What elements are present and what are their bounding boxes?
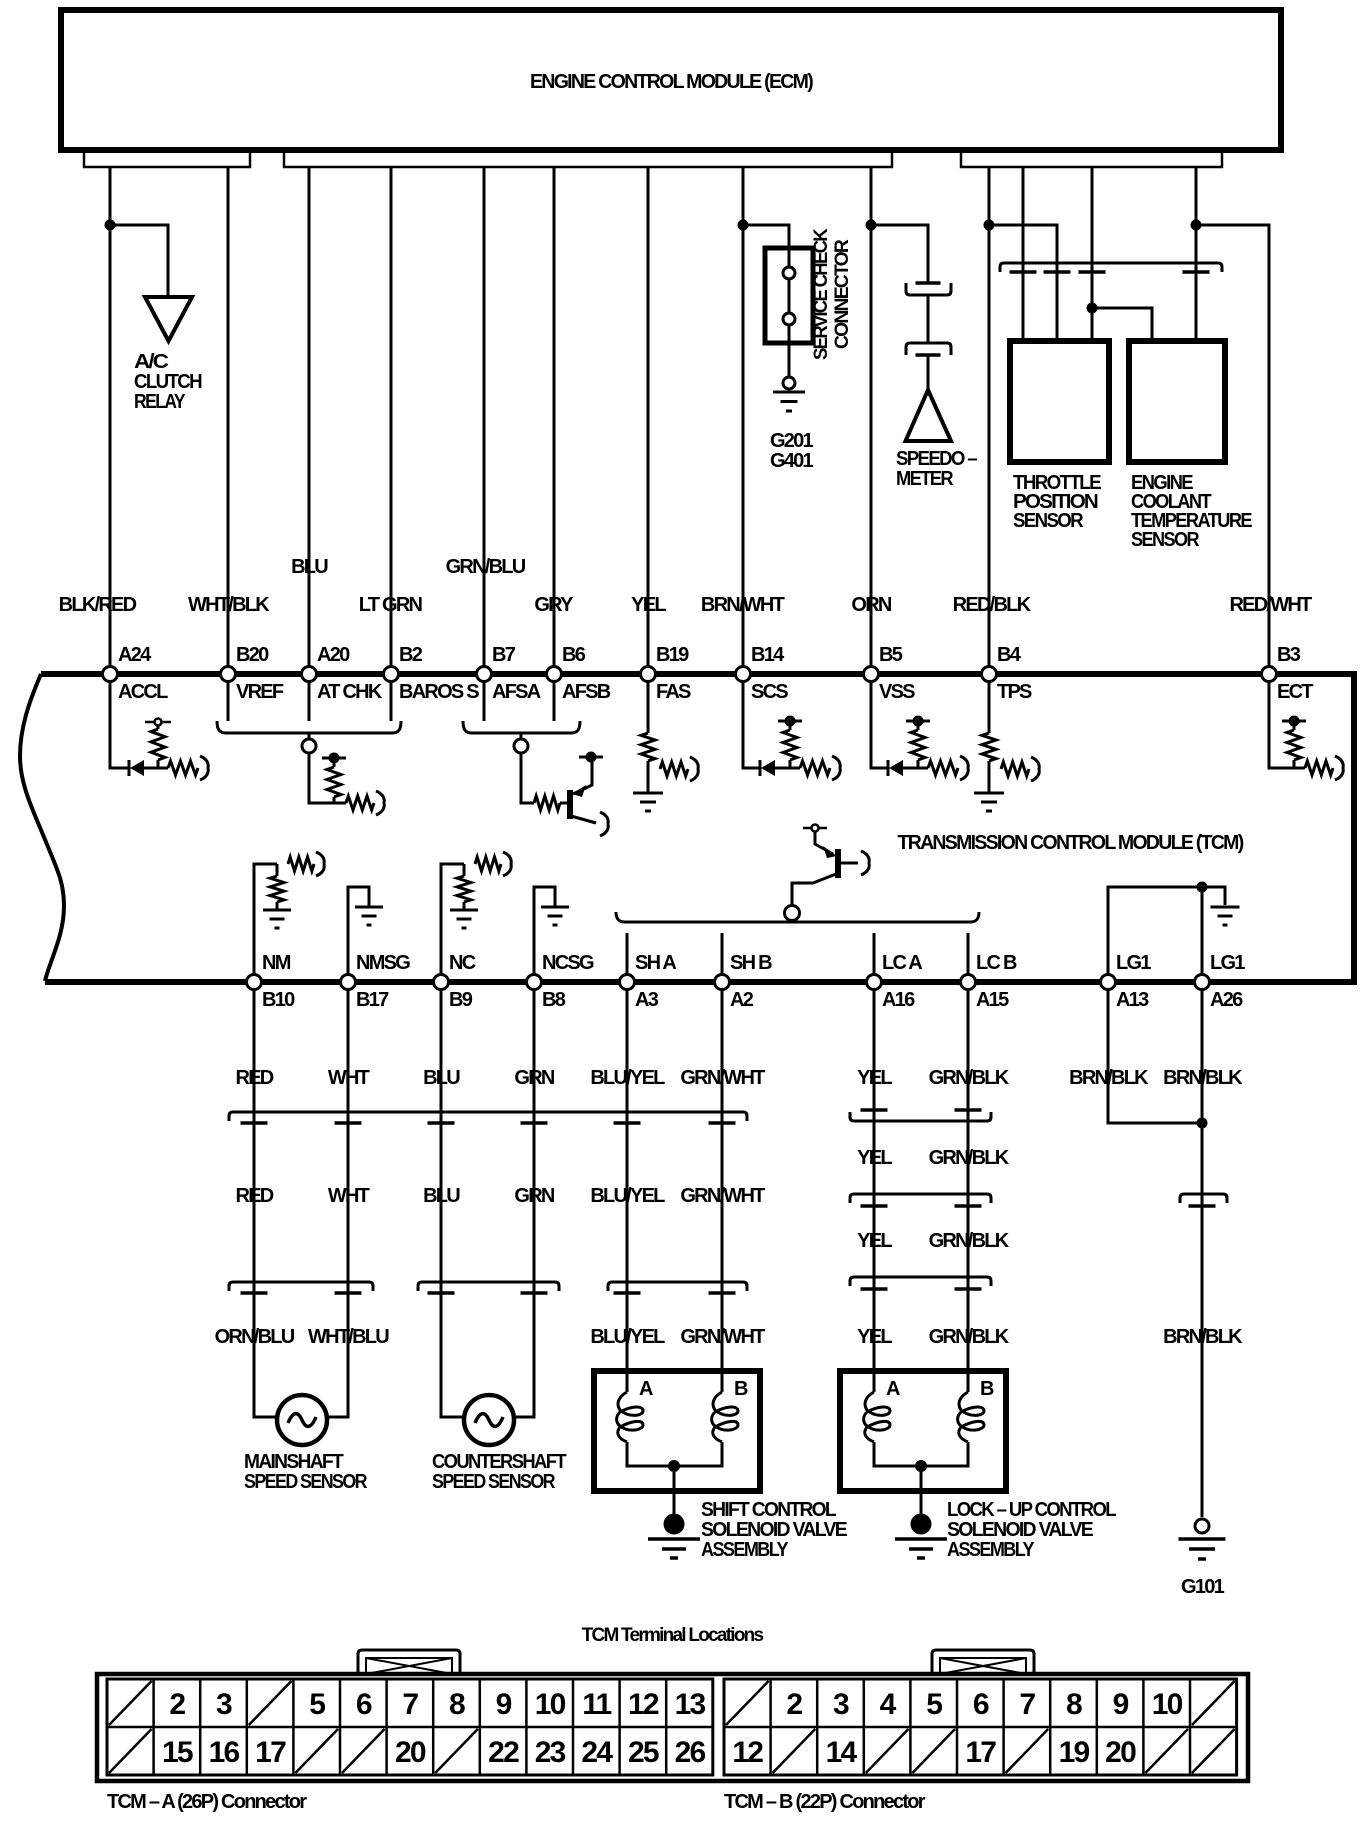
junction BRN/BLK bbox=[1197, 1118, 1208, 1129]
svg-text:B2: B2 bbox=[399, 644, 423, 666]
ECT internal circuit bbox=[1269, 681, 1343, 780]
label YEL row2 bbox=[857, 1147, 892, 1169]
svg-text:LC B: LC B bbox=[976, 952, 1017, 974]
ground G201/G401 bbox=[770, 377, 814, 472]
wire ORN B5 bbox=[870, 167, 873, 667]
svg-text:WHT: WHT bbox=[328, 1067, 370, 1089]
pin B3 ECT bbox=[1262, 644, 1314, 703]
label BLK/RED bbox=[59, 594, 137, 616]
wire A3 BLU/YEL bbox=[626, 989, 629, 1371]
wire RED/WHT B3 bbox=[1196, 225, 1269, 667]
wire WHT/BLK B20 bbox=[227, 167, 230, 667]
svg-text:SPEEDO –: SPEEDO – bbox=[896, 448, 978, 470]
label WHT/BLU row4 bbox=[308, 1326, 389, 1348]
pin A26 LG1 bbox=[1195, 952, 1246, 1011]
junction sensor mid bbox=[1087, 303, 1098, 314]
wire A15 GRN/BLK bbox=[967, 989, 970, 1371]
pin B6 AFSB bbox=[547, 644, 611, 703]
pin B8 NCSG bbox=[527, 952, 594, 1011]
wire GRY B6 bbox=[553, 167, 556, 667]
svg-text:YEL: YEL bbox=[857, 1147, 892, 1169]
wire B17 WHT bbox=[323, 989, 348, 1417]
svg-text:B20: B20 bbox=[236, 644, 269, 666]
wire A16 YEL bbox=[873, 989, 876, 1371]
svg-text:GRN/BLK: GRN/BLK bbox=[929, 1230, 1010, 1252]
A/C clutch relay triangle bbox=[134, 297, 202, 413]
label GRN/BLK row3 bbox=[929, 1230, 1010, 1252]
svg-text:VSS: VSS bbox=[879, 681, 915, 703]
svg-text:9: 9 bbox=[496, 1688, 512, 1721]
svg-text:CLUTCH: CLUTCH bbox=[134, 371, 202, 393]
wire to service check connector bbox=[743, 225, 789, 248]
NCSG internal ground bbox=[534, 887, 569, 975]
pin B4 TPS bbox=[982, 644, 1033, 703]
svg-text:10: 10 bbox=[535, 1688, 566, 1721]
svg-text:3: 3 bbox=[833, 1688, 849, 1721]
TCM-A 26P connector table bbox=[107, 1679, 713, 1813]
svg-text:LC A: LC A bbox=[882, 952, 922, 974]
svg-text:TCM Terminal Locations: TCM Terminal Locations bbox=[582, 1625, 764, 1646]
svg-text:4: 4 bbox=[880, 1688, 897, 1721]
label ORN bbox=[851, 594, 892, 616]
svg-text:RED: RED bbox=[236, 1185, 274, 1207]
pin B14 SCS bbox=[736, 644, 789, 703]
wire ECM to TPS sensor pin1 bbox=[1022, 167, 1025, 341]
svg-text:YEL: YEL bbox=[857, 1326, 892, 1348]
VREF group internal resistors bbox=[309, 753, 384, 816]
svg-text:B17: B17 bbox=[356, 989, 389, 1011]
svg-text:SOLENOID VALVE: SOLENOID VALVE bbox=[701, 1519, 847, 1541]
svg-text:6: 6 bbox=[973, 1688, 989, 1721]
NMSG internal ground bbox=[348, 887, 383, 975]
svg-text:6: 6 bbox=[356, 1688, 372, 1721]
svg-text:NM: NM bbox=[262, 952, 291, 974]
svg-text:24: 24 bbox=[581, 1736, 613, 1769]
svg-text:SENSOR: SENSOR bbox=[1013, 510, 1084, 532]
svg-text:BLU/YEL: BLU/YEL bbox=[590, 1067, 665, 1089]
svg-text:12: 12 bbox=[628, 1688, 659, 1721]
svg-text:BLU: BLU bbox=[291, 556, 328, 578]
svg-text:GRN/BLK: GRN/BLK bbox=[929, 1067, 1010, 1089]
svg-text:17: 17 bbox=[255, 1736, 286, 1769]
svg-text:B9: B9 bbox=[449, 989, 473, 1011]
ECM module box bbox=[61, 10, 1281, 150]
TPS internal circuit bbox=[974, 681, 1039, 811]
pin A3 SH A bbox=[620, 952, 677, 1011]
label GRN row1 bbox=[514, 1067, 555, 1089]
ground G101 bbox=[1179, 1519, 1226, 1598]
svg-text:TRANSMISSION CONTROL MODULE (T: TRANSMISSION CONTROL MODULE (TCM) bbox=[898, 832, 1244, 854]
svg-text:SOLENOID VALVE: SOLENOID VALVE bbox=[947, 1519, 1093, 1541]
svg-text:SCS: SCS bbox=[751, 681, 788, 703]
svg-text:B14: B14 bbox=[751, 644, 785, 666]
svg-text:GRN/WHT: GRN/WHT bbox=[680, 1326, 765, 1348]
svg-text:G201: G201 bbox=[770, 430, 814, 452]
svg-text:GRN/WHT: GRN/WHT bbox=[680, 1185, 765, 1207]
label GRN/BLK row1 bbox=[929, 1067, 1010, 1089]
bracket SH/LC group bbox=[616, 912, 979, 922]
bracket VREF group bbox=[217, 721, 401, 753]
svg-text:AFSB: AFSB bbox=[562, 681, 611, 703]
svg-text:8: 8 bbox=[1066, 1688, 1082, 1721]
TCM terminal locations title bbox=[582, 1625, 764, 1646]
svg-text:26: 26 bbox=[675, 1736, 706, 1769]
svg-text:B6: B6 bbox=[562, 644, 586, 666]
svg-text:SH A: SH A bbox=[635, 952, 676, 974]
wire LT GRN B2 bbox=[390, 167, 393, 667]
svg-text:10: 10 bbox=[1152, 1688, 1183, 1721]
label GRN/BLK row2 bbox=[929, 1147, 1010, 1169]
svg-text:SERVICE CHECK: SERVICE CHECK bbox=[811, 228, 832, 360]
svg-text:5: 5 bbox=[926, 1688, 942, 1721]
svg-text:TPS: TPS bbox=[997, 681, 1032, 703]
FAS internal circuit bbox=[633, 681, 698, 811]
wire GRN/BLU B7 bbox=[483, 167, 486, 667]
svg-text:11: 11 bbox=[582, 1688, 611, 1721]
label GRN/WHT row2 bbox=[680, 1185, 765, 1207]
housing tab A bbox=[358, 1650, 460, 1676]
label BRN/BLK row1 bbox=[1069, 1067, 1149, 1089]
wire A2 GRN/WHT bbox=[721, 989, 724, 1371]
svg-text:9: 9 bbox=[1113, 1688, 1129, 1721]
label GRN/BLU bbox=[446, 556, 526, 578]
inline connector LC lower bbox=[850, 1277, 991, 1289]
AFSA group resistor + transistor bbox=[521, 752, 608, 837]
svg-text:15: 15 bbox=[162, 1736, 193, 1769]
svg-text:B10: B10 bbox=[262, 989, 295, 1011]
svg-text:MAINSHAFT: MAINSHAFT bbox=[244, 1451, 343, 1473]
label LT GRN bbox=[359, 594, 423, 616]
wire TPS branch bbox=[989, 225, 1057, 341]
svg-text:20: 20 bbox=[1105, 1736, 1136, 1769]
SCS internal circuit bbox=[743, 681, 840, 780]
label YEL bbox=[631, 594, 666, 616]
pin B9 NC bbox=[434, 952, 476, 1011]
label GRN/WHT row1 bbox=[680, 1067, 765, 1089]
svg-text:16: 16 bbox=[209, 1736, 240, 1769]
label GRN/BLK row4 bbox=[929, 1326, 1010, 1348]
label GRN/WHT row4 bbox=[680, 1326, 765, 1348]
svg-text:B19: B19 bbox=[656, 644, 689, 666]
svg-text:NMSG: NMSG bbox=[356, 952, 410, 974]
svg-text:TCM – B (22P) Connector: TCM – B (22P) Connector bbox=[724, 1791, 926, 1813]
LG1 internal link bbox=[1108, 882, 1240, 976]
NC internal circuit bbox=[441, 852, 511, 975]
svg-text:BRN/BLK: BRN/BLK bbox=[1163, 1067, 1243, 1089]
label BLU/YEL row1 bbox=[590, 1067, 665, 1089]
ECM connector strip 1 bbox=[84, 153, 250, 167]
TCM title bbox=[898, 832, 1244, 854]
svg-text:LG1: LG1 bbox=[1116, 952, 1151, 974]
junction ACCL bbox=[105, 220, 116, 231]
junction TPS bbox=[984, 220, 995, 231]
svg-text:BLU/YEL: BLU/YEL bbox=[590, 1326, 665, 1348]
svg-text:7: 7 bbox=[1019, 1688, 1035, 1721]
pin A24 ACCL bbox=[103, 644, 169, 703]
svg-text:5: 5 bbox=[309, 1688, 325, 1721]
svg-text:BRN/WHT: BRN/WHT bbox=[701, 594, 785, 616]
svg-text:TCM – A (26P) Connector: TCM – A (26P) Connector bbox=[107, 1791, 307, 1813]
svg-text:LG1: LG1 bbox=[1210, 952, 1245, 974]
svg-text:20: 20 bbox=[395, 1736, 426, 1769]
wire A13 BRN/BLK bbox=[1108, 989, 1202, 1123]
housing tab B bbox=[932, 1650, 1034, 1676]
inline connector LC upper bbox=[850, 1110, 991, 1121]
label BRN/BLK row4 bbox=[1163, 1326, 1243, 1348]
svg-text:SPEED SENSOR: SPEED SENSOR bbox=[432, 1471, 556, 1493]
svg-text:VREF: VREF bbox=[236, 681, 284, 703]
junction VSS bbox=[866, 220, 877, 231]
label BLU row1 bbox=[423, 1067, 460, 1089]
pin B20 VREF bbox=[221, 644, 284, 703]
inline connector (speedometer) lower half bbox=[906, 295, 951, 355]
svg-text:SH B: SH B bbox=[730, 952, 772, 974]
svg-text:ECT: ECT bbox=[1277, 681, 1313, 703]
svg-text:ACCL: ACCL bbox=[118, 681, 168, 703]
lock-up control solenoid valve assembly bbox=[840, 1371, 1006, 1558]
label RED row2 bbox=[236, 1185, 274, 1207]
svg-text:GRN/WHT: GRN/WHT bbox=[680, 1067, 765, 1089]
label BRN/BLK row1 bbox=[1163, 1067, 1243, 1089]
svg-text:SPEED SENSOR: SPEED SENSOR bbox=[244, 1471, 368, 1493]
pin A16 LC A bbox=[867, 952, 923, 1011]
label GRY bbox=[534, 594, 574, 616]
svg-text:ORN: ORN bbox=[851, 594, 892, 616]
pin B19 FAS bbox=[641, 644, 692, 703]
VSS internal circuit bbox=[871, 681, 968, 780]
sensor connector bracket bbox=[1000, 263, 1222, 272]
svg-text:BRN/BLK: BRN/BLK bbox=[1163, 1326, 1243, 1348]
wire ECM to ECT sensor pin2 bbox=[1195, 167, 1198, 341]
label RED/BLK bbox=[953, 594, 1032, 616]
label BRN/WHT bbox=[701, 594, 785, 616]
inline connector C1 (6 wires) bbox=[229, 1112, 747, 1123]
TCM module outline bbox=[20, 674, 1354, 982]
svg-text:14: 14 bbox=[826, 1736, 858, 1769]
svg-text:RED/BLK: RED/BLK bbox=[953, 594, 1032, 616]
svg-text:CONNECTOR: CONNECTOR bbox=[832, 239, 853, 349]
svg-text:23: 23 bbox=[535, 1736, 566, 1769]
svg-text:13: 13 bbox=[675, 1688, 706, 1721]
svg-text:ORN/BLU: ORN/BLU bbox=[215, 1326, 295, 1348]
inline connector C2b bbox=[418, 1282, 559, 1293]
svg-text:A3: A3 bbox=[635, 989, 659, 1011]
label BLU/YEL row4 bbox=[590, 1326, 665, 1348]
wire B9 BLU bbox=[441, 989, 466, 1417]
svg-text:B5: B5 bbox=[879, 644, 903, 666]
inline connector C2c bbox=[608, 1282, 747, 1293]
svg-text:B: B bbox=[980, 1378, 994, 1400]
inline connector LC mid bbox=[850, 1194, 991, 1206]
svg-text:BLU: BLU bbox=[423, 1185, 460, 1207]
shift control solenoid valve assembly bbox=[594, 1371, 760, 1558]
throttle position sensor bbox=[1010, 341, 1109, 532]
svg-text:GRN/BLK: GRN/BLK bbox=[929, 1147, 1010, 1169]
wire BLU A20 bbox=[308, 167, 311, 667]
service check connector bbox=[765, 228, 853, 360]
engine coolant temperature sensor bbox=[1129, 341, 1252, 551]
svg-text:RELAY: RELAY bbox=[134, 391, 186, 413]
wire to A/C clutch relay bbox=[110, 225, 168, 297]
svg-text:G101: G101 bbox=[1181, 1576, 1225, 1598]
pin B17 NMSG bbox=[341, 952, 411, 1011]
ECM connector strip 3 bbox=[961, 153, 1222, 167]
wire ECM to sensors mid bbox=[1091, 167, 1094, 341]
pin A13 LG1 bbox=[1101, 952, 1152, 1011]
inline connector BRN/BLK bbox=[1180, 1194, 1227, 1206]
ACCL internal circuit bbox=[110, 681, 208, 780]
svg-text:GRY: GRY bbox=[534, 594, 574, 616]
svg-text:ENGINE CONTROL MODULE (ECM): ENGINE CONTROL MODULE (ECM) bbox=[530, 71, 813, 93]
label ORN/BLU row4 bbox=[215, 1326, 295, 1348]
svg-text:WHT/BLK: WHT/BLK bbox=[188, 594, 270, 616]
svg-text:B: B bbox=[734, 1378, 748, 1400]
wire BRN/WHT B14 bbox=[742, 167, 745, 667]
svg-text:YEL: YEL bbox=[631, 594, 666, 616]
ECM connector strip 2 bbox=[284, 153, 892, 167]
svg-text:GRN: GRN bbox=[514, 1185, 555, 1207]
svg-text:12: 12 bbox=[732, 1736, 763, 1769]
wires SH/LC into bracket bbox=[627, 933, 968, 975]
connector housing bbox=[97, 1674, 1248, 1781]
label WHT row2 bbox=[328, 1185, 370, 1207]
TCM-B 22P connector table bbox=[724, 1679, 1237, 1813]
inline connector C2a bbox=[229, 1282, 373, 1293]
svg-text:WHT/BLU: WHT/BLU bbox=[308, 1326, 389, 1348]
junction ECT branch bbox=[1191, 220, 1202, 231]
svg-text:BLU/YEL: BLU/YEL bbox=[590, 1185, 665, 1207]
svg-text:25: 25 bbox=[628, 1736, 659, 1769]
label BLU/YEL row2 bbox=[590, 1185, 665, 1207]
svg-text:WHT: WHT bbox=[328, 1185, 370, 1207]
svg-text:A/C: A/C bbox=[134, 351, 168, 373]
svg-text:2: 2 bbox=[169, 1688, 185, 1721]
svg-text:LOCK – UP CONTROL: LOCK – UP CONTROL bbox=[947, 1499, 1116, 1521]
label BLU row2 bbox=[423, 1185, 460, 1207]
svg-text:SHIFT CONTROL: SHIFT CONTROL bbox=[701, 1499, 836, 1521]
svg-text:METER: METER bbox=[896, 468, 954, 490]
label WHT/BLK bbox=[188, 594, 270, 616]
svg-text:A16: A16 bbox=[882, 989, 915, 1011]
svg-text:LT GRN: LT GRN bbox=[359, 594, 423, 616]
label RED row1 bbox=[236, 1067, 274, 1089]
svg-text:BAROS S: BAROS S bbox=[399, 681, 479, 703]
SH/LC transistor bbox=[785, 825, 870, 921]
wire RED/BLK B4 bbox=[988, 167, 991, 667]
svg-text:YEL: YEL bbox=[857, 1230, 892, 1252]
wire B8 GRN bbox=[510, 989, 534, 1417]
svg-text:RED: RED bbox=[236, 1067, 274, 1089]
svg-text:BRN/BLK: BRN/BLK bbox=[1069, 1067, 1149, 1089]
svg-text:8: 8 bbox=[449, 1688, 465, 1721]
wire BLK/RED A24 bbox=[109, 167, 112, 667]
label GRN row2 bbox=[514, 1185, 555, 1207]
svg-text:GRN: GRN bbox=[514, 1067, 555, 1089]
svg-text:19: 19 bbox=[1059, 1736, 1090, 1769]
svg-text:2: 2 bbox=[786, 1688, 802, 1721]
inline connector (speedometer) upper half bbox=[906, 283, 951, 295]
svg-text:A2: A2 bbox=[730, 989, 754, 1011]
svg-text:FAS: FAS bbox=[656, 681, 691, 703]
label YEL row4 bbox=[857, 1326, 892, 1348]
svg-text:AFSA: AFSA bbox=[492, 681, 541, 703]
svg-text:GRN/BLK: GRN/BLK bbox=[929, 1326, 1010, 1348]
wire B10 RED bbox=[254, 989, 279, 1417]
label YEL row3 bbox=[857, 1230, 892, 1252]
pin A15 LC B bbox=[961, 952, 1017, 1011]
svg-text:BLK/RED: BLK/RED bbox=[59, 594, 137, 616]
svg-text:G401: G401 bbox=[770, 450, 814, 472]
wire below service connector bbox=[788, 343, 791, 377]
svg-text:GRN/BLU: GRN/BLU bbox=[446, 556, 526, 578]
svg-text:RED/WHT: RED/WHT bbox=[1229, 594, 1312, 616]
svg-text:7: 7 bbox=[402, 1688, 418, 1721]
AFSA/AFSB wires into bracket bbox=[484, 681, 554, 721]
wire LG1 A26 bbox=[1201, 887, 1204, 975]
pin B10 NM bbox=[247, 952, 296, 1011]
pin B7 AFSA bbox=[477, 644, 541, 703]
svg-text:A24: A24 bbox=[118, 644, 152, 666]
svg-text:A: A bbox=[639, 1378, 653, 1400]
svg-text:A20: A20 bbox=[317, 644, 350, 666]
svg-text:22: 22 bbox=[488, 1736, 519, 1769]
svg-text:NCSG: NCSG bbox=[542, 952, 594, 974]
label BLU bbox=[291, 556, 328, 578]
svg-text:17: 17 bbox=[965, 1736, 996, 1769]
svg-text:SENSOR: SENSOR bbox=[1131, 529, 1200, 551]
wire YEL B19 bbox=[647, 167, 650, 667]
svg-text:YEL: YEL bbox=[857, 1067, 892, 1089]
bracket AFSA group bbox=[463, 721, 580, 753]
svg-text:3: 3 bbox=[216, 1688, 232, 1721]
svg-text:B7: B7 bbox=[492, 644, 516, 666]
svg-text:ASSEMBLY: ASSEMBLY bbox=[947, 1539, 1035, 1561]
svg-text:A: A bbox=[886, 1378, 900, 1400]
NM internal circuit bbox=[254, 852, 324, 975]
svg-text:B4: B4 bbox=[997, 644, 1022, 666]
pin B5 VSS bbox=[864, 644, 916, 703]
VREF/AT CHK/BAROS S wires into bracket bbox=[228, 681, 391, 721]
svg-text:BLU: BLU bbox=[423, 1067, 460, 1089]
svg-text:ASSEMBLY: ASSEMBLY bbox=[701, 1539, 789, 1561]
svg-text:B8: B8 bbox=[542, 989, 566, 1011]
countershaft speed sensor bbox=[432, 1395, 566, 1493]
svg-text:NC: NC bbox=[449, 952, 476, 974]
svg-text:COUNTERSHAFT: COUNTERSHAFT bbox=[432, 1451, 566, 1473]
label RED/WHT bbox=[1229, 594, 1312, 616]
mainshaft speed sensor bbox=[244, 1395, 368, 1493]
speedometer symbol bbox=[896, 355, 978, 490]
junction SCS bbox=[738, 220, 749, 231]
pin A20 AT CHK bbox=[302, 644, 383, 703]
pin B2 BAROS S bbox=[384, 644, 480, 703]
wire A26 BRN/BLK to G101 bbox=[1201, 989, 1204, 1517]
wire to speedometer bbox=[871, 225, 928, 283]
svg-text:B3: B3 bbox=[1277, 644, 1301, 666]
label YEL row1 bbox=[857, 1067, 892, 1089]
wire branch to ECT sensor bbox=[1092, 308, 1152, 341]
svg-text:A26: A26 bbox=[1210, 989, 1243, 1011]
svg-text:A15: A15 bbox=[976, 989, 1009, 1011]
svg-text:AT CHK: AT CHK bbox=[317, 681, 383, 703]
pin A2 SH B bbox=[715, 952, 773, 1011]
label WHT row1 bbox=[328, 1067, 370, 1089]
svg-text:A13: A13 bbox=[1116, 989, 1149, 1011]
